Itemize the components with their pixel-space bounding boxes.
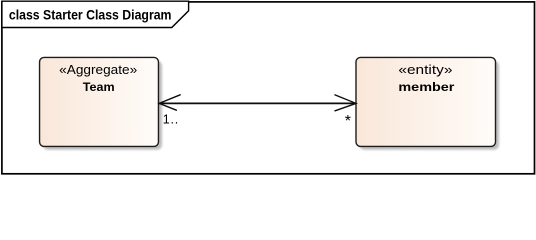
arrowhead at Team end (159, 95, 180, 110)
svg-text:«entity»: «entity» (398, 63, 452, 77)
svg-text:1..: 1.. (163, 113, 179, 127)
frame title tab (2, 1, 189, 27)
svg-text:member: member (398, 80, 454, 94)
association wire (159, 102, 356, 104)
svg-text:Team: Team (83, 80, 115, 94)
class Team box (40, 57, 159, 146)
arrowhead at member end (335, 95, 356, 111)
svg-text:*: * (345, 113, 351, 130)
frame border (2, 2, 535, 174)
svg-text:«Aggregate»: «Aggregate» (59, 63, 137, 77)
svg-text:class Starter Class Diagram: class Starter Class Diagram (9, 7, 172, 23)
class member shadow (360, 61, 500, 150)
class member box (356, 57, 496, 146)
class Team shadow (43, 61, 162, 150)
diagram background (0, 0, 536, 176)
